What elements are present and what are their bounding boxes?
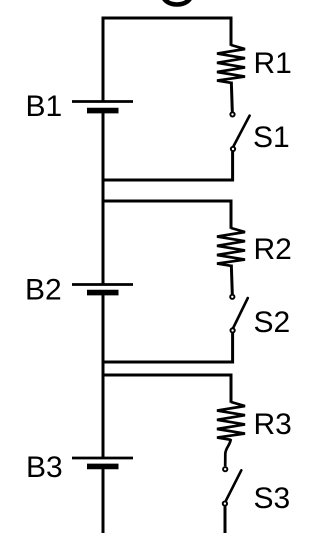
wire: left rail top segment (loop tops junctions, down to B1)	[102, 17, 105, 102]
switch S1	[230, 112, 249, 151]
wire: left rail B2 to B3	[102, 293, 105, 458]
battery B2	[72, 285, 133, 293]
wire: left rail below B3 to bottom edge	[102, 466, 105, 533]
svg-text:R3: R3	[254, 408, 292, 441]
wire: loop3 top (node to R3 top)	[102, 375, 232, 403]
wire: S3 bottom lead to bottom edge	[224, 506, 227, 533]
svg-text:S1: S1	[253, 121, 290, 154]
partial title text (cropped letter)	[163, 0, 191, 5]
svg-text:B3: B3	[26, 451, 63, 484]
svg-text:B2: B2	[25, 274, 62, 307]
wire: R3 bottom curved lead to S3 top contact	[225, 439, 231, 466]
wire: R2 bottom to S2 top contact	[231, 265, 232, 295]
wire: loop1 top (node B1+ to R1 top)	[102, 18, 232, 46]
svg-text:S3: S3	[254, 482, 291, 515]
svg-text:B1: B1	[26, 90, 63, 123]
wire: S1 bottom to loop1 bottom rail (node loop1/loop2)	[102, 152, 233, 180]
wire: left rail B1 to B2 (passes loop1/loop2 junction)	[102, 111, 105, 285]
resistor R1	[217, 45, 245, 83]
resistor R3	[217, 402, 245, 440]
battery B1	[72, 102, 133, 111]
svg-text:R2: R2	[254, 233, 292, 266]
switch S3	[223, 467, 242, 506]
svg-text:S2: S2	[254, 306, 291, 339]
wire: S2 bottom to loop2 bottom rail (node loop2/loop3)	[102, 333, 233, 362]
resistor R2	[217, 228, 245, 266]
wire: R1 bottom to S1 top contact	[231, 82, 232, 112]
battery B3	[72, 458, 133, 466]
switch S2	[230, 295, 248, 333]
svg-text:R1: R1	[254, 47, 292, 80]
wire: loop2 top (node to R2 top)	[102, 201, 232, 229]
